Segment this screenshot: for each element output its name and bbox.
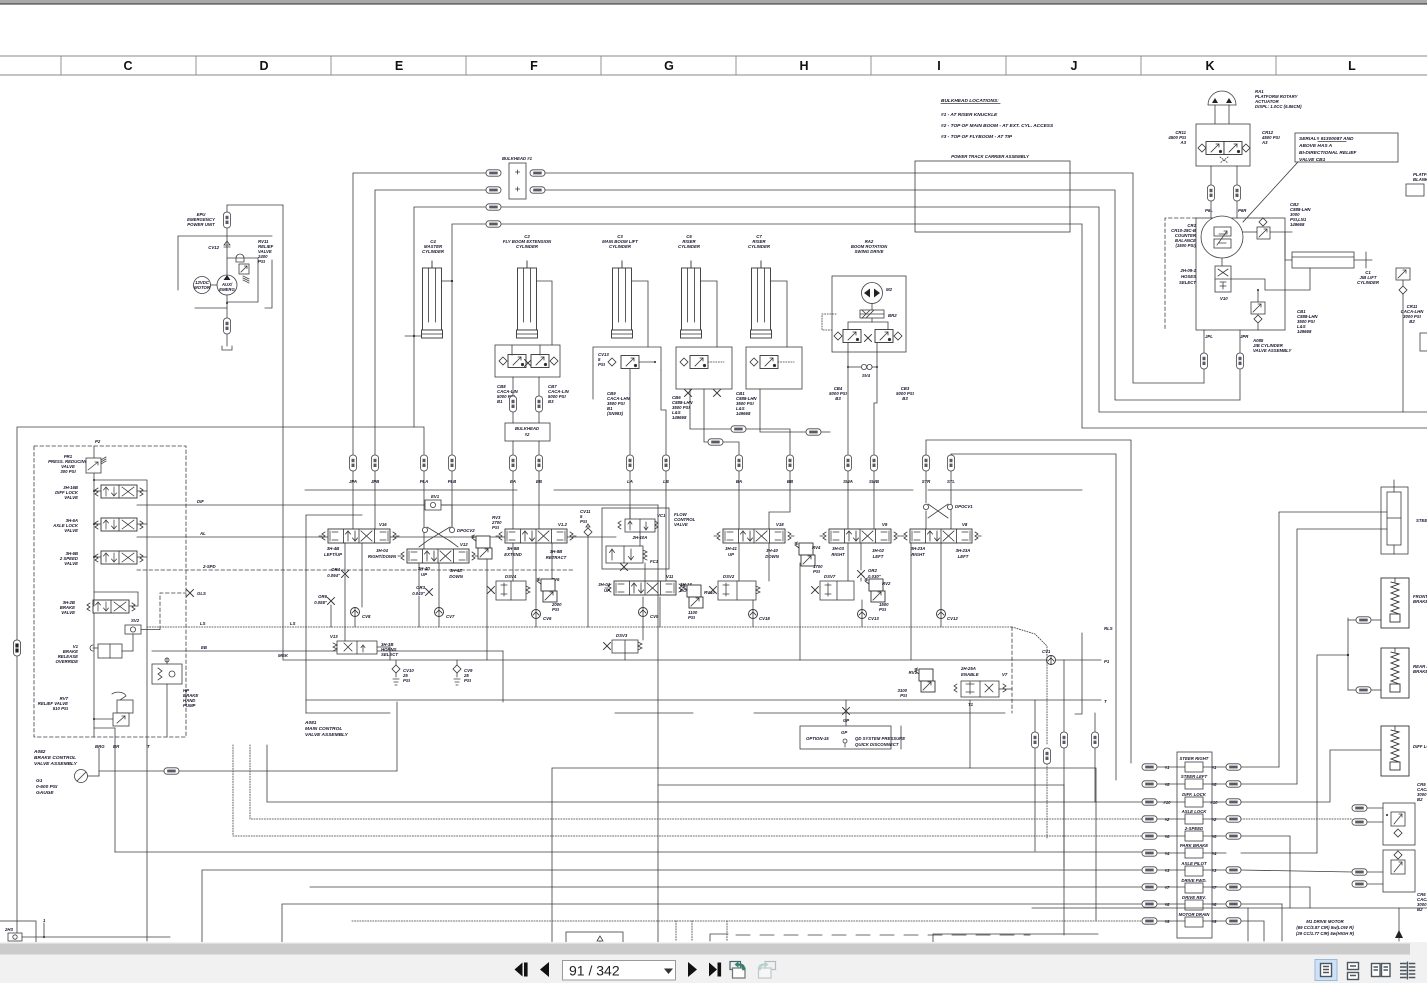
svg-text:B2: B2	[1409, 319, 1415, 324]
svg-text:PSI: PSI	[552, 607, 560, 612]
wires C6 down with SAE4 pills	[690, 389, 731, 429]
svg-text:K: K	[1205, 59, 1214, 73]
bottom right return box	[933, 934, 1098, 943]
valve V16 platform level	[319, 529, 399, 543]
svg-text:V12: V12	[460, 542, 468, 547]
svg-text:BRG: BRG	[95, 744, 105, 749]
top browser strip	[0, 0, 1427, 3]
svg-text:BR: BR	[113, 744, 120, 749]
svg-text:PSI: PSI	[900, 693, 908, 698]
grid header row	[0, 56, 1427, 75]
wire bus 7	[310, 886, 1142, 888]
svg-text:3H-04: 3H-04	[376, 548, 388, 553]
svg-text:3H-4D: 3H-4D	[418, 566, 430, 571]
first page button	[515, 963, 523, 977]
wires C2 down	[512, 377, 514, 396]
svg-text:P6R: P6R	[1238, 208, 1247, 213]
diff lock actuator	[1381, 726, 1409, 776]
CR box 2	[1383, 850, 1415, 892]
svg-text:ENABLE: ENABLE	[961, 672, 979, 677]
counterbalance pair swing	[834, 332, 842, 340]
svg-text:MGK: MGK	[278, 653, 289, 658]
svg-text:#7: #7	[1165, 885, 1170, 890]
svg-text:DOWN: DOWN	[449, 574, 464, 579]
svg-text:QD SYSTEM PRESSURE: QD SYSTEM PRESSURE	[855, 736, 905, 741]
svg-text:MOTOR DRAIN: MOTOR DRAIN	[1179, 912, 1211, 917]
rear axle brake	[1381, 648, 1409, 698]
svg-text:SELECT: SELECT	[1179, 280, 1196, 285]
bottom small box G	[566, 932, 623, 956]
next page button	[688, 962, 697, 977]
svg-text:POWER TRACK CARRIER ASSEMBLY: POWER TRACK CARRIER ASSEMBLY	[951, 154, 1030, 159]
svg-text:3H-04: 3H-04	[598, 582, 610, 587]
svg-text:H: H	[799, 59, 808, 73]
pills row	[350, 455, 357, 471]
svg-text:VALVE ASSEMBLY: VALVE ASSEMBLY	[34, 761, 78, 767]
relief CB1 jib	[1251, 302, 1265, 314]
connector SAE4 pill C7	[806, 429, 821, 435]
svg-text:PSI: PSI	[580, 519, 588, 524]
wire LS long dotted	[147, 626, 1012, 628]
svg-text:PSI: PSI	[492, 525, 500, 530]
svg-text:#2: #2	[1165, 817, 1170, 822]
rail T	[306, 699, 1101, 701]
svg-text:#1 - AT RISER KNUCKLE: #1 - AT RISER KNUCKLE	[941, 112, 998, 118]
svg-text:T1: T1	[968, 702, 974, 707]
wire PLA run	[414, 207, 1427, 455]
svg-text:149668: 149668	[1297, 329, 1312, 334]
wires steer	[1279, 512, 1387, 767]
svg-text:M1 DRIVE MOTOR: M1 DRIVE MOTOR	[1306, 919, 1344, 924]
svg-text:D: D	[259, 59, 268, 73]
svg-text:LEFT/UP: LEFT/UP	[324, 552, 342, 557]
wire gauge to manifold	[179, 770, 397, 772]
wire bus 9 dotted	[352, 920, 1142, 922]
svg-text:PSI: PSI	[688, 615, 696, 620]
node GLS	[187, 590, 194, 597]
wires jib cylinder	[1285, 232, 1292, 260]
svg-text:#4: #4	[1212, 851, 1217, 856]
svg-text:P6L: P6L	[1205, 208, 1213, 213]
svg-text:CV13: CV13	[868, 616, 879, 621]
shaft wire	[211, 284, 218, 286]
svg-text:3H-41: 3H-41	[725, 546, 737, 551]
svg-text:2-SPEED: 2-SPEED	[1184, 826, 1203, 831]
wires dome to box	[1214, 105, 1216, 124]
svg-text:V13: V13	[330, 634, 338, 639]
wire AL	[137, 536, 616, 538]
svg-text:DIFF LOCK: DIFF LOCK	[1413, 744, 1427, 749]
svg-text:CYLINDER: CYLINDER	[1357, 280, 1380, 285]
svg-text:L: L	[1348, 59, 1356, 73]
valve V18 riser	[714, 529, 794, 543]
svg-text:PARK BRAKE: PARK BRAKE	[1180, 843, 1208, 848]
wire JPA run	[353, 173, 486, 455]
svg-text:C: C	[123, 59, 132, 73]
svg-text:3H-4B: 3H-4B	[327, 546, 339, 551]
check CV6	[532, 610, 541, 619]
svg-text:3H-23A: 3H-23A	[956, 548, 971, 553]
check CV9	[453, 665, 461, 673]
svg-text:V18: V18	[776, 522, 784, 527]
svg-text:STR: STR	[922, 479, 931, 484]
valve assembly C3	[593, 347, 661, 399]
relief valve RV11	[236, 254, 244, 262]
svg-text:JPL: JPL	[1205, 334, 1213, 339]
connector SAE6 pill gauge line	[164, 768, 179, 774]
check CV13	[858, 610, 867, 619]
svg-text:#8: #8	[1212, 902, 1217, 907]
bottom toolbar	[0, 942, 1427, 983]
svg-text:#6: #6	[1212, 834, 1217, 839]
page number box	[563, 961, 676, 981]
svg-text:2H-09-1: 2H-09-1	[1179, 268, 1196, 273]
svg-text:RIGHT: RIGHT	[831, 552, 845, 557]
svg-text:RIGHT/DOWN: RIGHT/DOWN	[368, 554, 397, 559]
svg-text:SWING DRIVE: SWING DRIVE	[855, 249, 884, 254]
EPU bottom rails	[195, 307, 227, 309]
last page button	[709, 963, 717, 977]
svg-text:STEER LEFT: STEER LEFT	[1181, 774, 1208, 779]
svg-text:CV12: CV12	[947, 616, 958, 621]
svg-text:V9: V9	[882, 522, 888, 527]
wire pump down	[226, 295, 228, 318]
node GP	[843, 708, 850, 715]
svg-text:#5: #5	[1165, 782, 1170, 787]
svg-text:G: G	[664, 59, 674, 73]
svg-text:DOWN: DOWN	[765, 554, 780, 559]
valve FC1	[606, 546, 643, 563]
check CV10	[392, 665, 400, 673]
svg-text:#9: #9	[1165, 919, 1170, 924]
svg-text:#9: #9	[1212, 919, 1217, 924]
svg-text:GAUGE: GAUGE	[36, 790, 54, 796]
manifold top bus	[305, 489, 517, 491]
continuous icon	[1348, 963, 1359, 970]
svg-text:VALVE: VALVE	[61, 610, 75, 615]
svg-text:UP: UP	[728, 552, 734, 557]
svg-text:I: I	[937, 59, 940, 73]
valve EV1	[425, 500, 441, 510]
connector pills bulkhead1	[486, 170, 501, 176]
svg-text:RV1: RV1	[909, 670, 918, 675]
wire to tank	[226, 334, 228, 346]
tank symbol	[222, 346, 232, 350]
svg-text:510 PSI: 510 PSI	[53, 706, 69, 711]
wire EPU right drop	[283, 205, 306, 660]
svg-text:DSV3: DSV3	[616, 633, 628, 638]
svg-text:0.055": 0.055"	[314, 600, 328, 605]
wire bus 2 dotted	[250, 745, 1142, 819]
brake feed wires	[1347, 618, 1349, 690]
right edge check assembly	[1396, 268, 1410, 280]
svg-text:0.030": 0.030"	[868, 574, 882, 579]
bulkhead #2 box	[505, 423, 550, 441]
valve V11 lift	[605, 581, 685, 595]
svg-text:#2: #2	[525, 432, 530, 437]
orifice OR2	[858, 571, 865, 578]
svg-text:3H-4E: 3H-4E	[450, 568, 462, 573]
prev page button	[540, 962, 549, 977]
svg-text:OPTION-15: OPTION-15	[806, 736, 829, 741]
wires C3 down	[629, 369, 631, 455]
note pointer	[1243, 162, 1298, 222]
svg-text:P1: P1	[1104, 659, 1110, 664]
svg-text:2-SPD: 2-SPD	[202, 564, 216, 569]
svg-text:#10: #10	[1163, 800, 1171, 805]
svg-text:VALVE: VALVE	[64, 528, 78, 533]
svg-text:0.094": 0.094"	[327, 573, 341, 578]
svg-text:#8: #8	[1165, 902, 1170, 907]
svg-text:#10: #10	[1210, 800, 1218, 805]
bulkhead #1 box	[509, 163, 526, 199]
svg-text:CV6: CV6	[543, 616, 552, 621]
wire return box 2	[658, 785, 1064, 943]
svg-text:VALVE CB1: VALVE CB1	[1299, 157, 1326, 163]
check valve CV12	[224, 241, 230, 247]
svg-text:AL: AL	[199, 531, 206, 536]
svg-text:OR2: OR2	[868, 568, 877, 573]
svg-text:A081: A081	[304, 720, 317, 726]
svg-text:3H-40: 3H-40	[766, 548, 778, 553]
cylinder C1 jib lift	[1292, 252, 1354, 268]
brake BR2	[860, 310, 884, 318]
connector SAE pill EPU bottom	[224, 318, 231, 334]
wire pump column	[226, 205, 228, 212]
svg-text:G1: G1	[36, 778, 43, 784]
swing enclosure	[832, 276, 906, 352]
svg-text:BRAKE CONTROL: BRAKE CONTROL	[34, 755, 76, 761]
svg-text:BULKHEAD: BULKHEAD	[515, 426, 539, 431]
check CV12	[937, 610, 946, 619]
check CV5	[639, 608, 648, 617]
valve V12 jib	[398, 549, 478, 563]
svg-text:V16: V16	[379, 522, 387, 527]
enable bracket	[1075, 633, 1082, 714]
svg-text:DRIVE FWD.: DRIVE FWD.	[1181, 878, 1206, 883]
valve V9 swing	[820, 529, 900, 543]
svg-text:91 / 342: 91 / 342	[569, 963, 620, 979]
svg-text:#6: #6	[1165, 834, 1170, 839]
check CV8	[351, 608, 360, 617]
next view button (disabled)	[765, 962, 776, 970]
svg-text:2H-25A: 2H-25A	[960, 666, 976, 671]
svg-text:STEER RIGHT: STEER RIGHT	[1180, 756, 1209, 761]
relief RV10	[683, 584, 703, 608]
svg-text:B3: B3	[548, 399, 554, 404]
svg-text:LEFT: LEFT	[873, 554, 884, 559]
relief return box	[227, 258, 258, 302]
two-up continuous icon	[1400, 962, 1415, 980]
counterbalance CR11	[1198, 144, 1206, 152]
svg-text:PSI: PSI	[403, 678, 411, 683]
svg-text:AXLE LOCK: AXLE LOCK	[1181, 809, 1208, 814]
svg-text:FC1: FC1	[650, 559, 659, 564]
wires RLS P1 T drops	[1012, 627, 1047, 745]
svg-text:CV8: CV8	[362, 614, 371, 619]
wire 2-SPD	[137, 569, 574, 571]
svg-text:#4: #4	[1165, 851, 1170, 856]
manifold left edge	[306, 515, 362, 713]
manifold right dashed edge	[1011, 627, 1013, 713]
left pills column	[1142, 764, 1157, 770]
counterbalance CR1 circle	[1201, 216, 1243, 258]
check DPOCV2	[422, 527, 427, 532]
svg-text:VALVE: VALVE	[64, 495, 78, 500]
valve assembly C6	[676, 347, 732, 389]
svg-text:E: E	[395, 59, 403, 73]
svg-text:2H3: 2H3	[4, 927, 13, 932]
serial number note box	[1295, 133, 1398, 162]
svg-text:CYLINDER: CYLINDER	[516, 244, 539, 249]
svg-text:PSI: PSI	[258, 259, 266, 264]
svg-text:V10: V10	[1220, 296, 1228, 301]
svg-text:QUICK DISCONNECT: QUICK DISCONNECT	[855, 742, 899, 747]
svg-text:EMERG: EMERG	[219, 287, 235, 292]
wire EPU top	[227, 204, 283, 206]
svg-text:#2: #2	[1212, 817, 1217, 822]
connector SAE pill EPU top	[224, 212, 231, 228]
svg-text:DIFF. LOCK: DIFF. LOCK	[1182, 792, 1207, 797]
wire DIF	[137, 504, 658, 506]
svg-text:V1.2: V1.2	[558, 522, 567, 527]
svg-text:RETRACT: RETRACT	[546, 555, 567, 560]
svg-text:149668: 149668	[672, 415, 687, 420]
svg-text:(69 CC/3.87 CIR) 5w(LOW R): (69 CC/3.87 CIR) 5w(LOW R)	[1296, 925, 1354, 930]
svg-text:VALVE ASSEMBLY: VALVE ASSEMBLY	[1253, 348, 1292, 353]
wire bus 4	[115, 851, 1142, 853]
svg-text:3H-23A: 3H-23A	[911, 546, 926, 551]
svg-text:GP: GP	[841, 730, 847, 735]
svg-text:0-600 PSI: 0-600 PSI	[36, 784, 58, 790]
wire bus 6 dotted	[233, 745, 1142, 836]
svg-text:MOTOR: MOTOR	[194, 285, 211, 290]
svg-text:VALVE: VALVE	[674, 522, 688, 527]
steer cylinder	[1381, 487, 1408, 554]
svg-text:3H-03: 3H-03	[832, 546, 844, 551]
svg-text:UP: UP	[604, 588, 610, 593]
valve assembly C2 counterbalance	[495, 345, 560, 377]
svg-text:(29 CC/1.77 CIR) 5w(HIGH R): (29 CC/1.77 CIR) 5w(HIGH R)	[1296, 931, 1355, 936]
relief RV4	[795, 542, 815, 566]
valve VC1	[625, 519, 655, 532]
svg-text:F: F	[530, 59, 538, 73]
actuator RA1 dome	[1208, 91, 1236, 105]
svg-text:OR4: OR4	[331, 567, 340, 572]
svg-text:V7: V7	[1002, 672, 1008, 677]
svg-text:M2: M2	[886, 287, 893, 292]
svg-text:DPOCV2: DPOCV2	[457, 528, 475, 533]
manifold bottom border	[615, 712, 693, 714]
wires box down	[1210, 166, 1212, 185]
valve assembly C7	[746, 347, 802, 389]
valve V1.2 extend	[496, 529, 576, 543]
pump AUX/EMERG	[217, 275, 237, 295]
svg-text:DIF: DIF	[197, 499, 204, 504]
svg-text:MAIN CONTROL: MAIN CONTROL	[305, 726, 342, 732]
two-up icon	[1372, 964, 1381, 977]
svg-text:CV18: CV18	[759, 616, 770, 621]
relief RV2	[865, 578, 885, 602]
svg-text:#7: #7	[1212, 885, 1217, 890]
svg-text:(1500 PSI): (1500 PSI)	[1175, 243, 1196, 248]
pill stubs to bus	[352, 471, 354, 529]
wire dash bottom	[736, 934, 1030, 936]
pills SAE4 jib top	[1208, 185, 1215, 201]
wire main column	[93, 446, 95, 737]
svg-text:BULKHEAD #1: BULKHEAD #1	[502, 156, 533, 161]
svg-text:GLS: GLS	[197, 591, 206, 596]
motor M2	[862, 283, 883, 304]
svg-text:CYLINDER: CYLINDER	[609, 244, 632, 249]
svg-text:149668: 149668	[1290, 222, 1305, 227]
svg-text:#3: #3	[1165, 868, 1170, 873]
svg-text:STEER: STEER	[1416, 518, 1427, 523]
svg-text:CV1: CV1	[1042, 649, 1051, 654]
svg-text:PSI: PSI	[879, 607, 887, 612]
svg-text:DRIVE REV.: DRIVE REV.	[1182, 895, 1206, 900]
pills C2 upper	[510, 396, 517, 412]
wire T drop	[146, 745, 148, 941]
wires swing down	[847, 343, 849, 455]
svg-text:300 PSI: 300 PSI	[60, 469, 76, 474]
previous view button	[730, 962, 741, 970]
svg-text:LS: LS	[200, 621, 206, 626]
connector SAE6 pill left edge	[14, 640, 21, 656]
check DPOCV1	[923, 504, 928, 509]
svg-text:HOSES: HOSES	[1181, 274, 1196, 279]
svg-text:PSI: PSI	[813, 569, 821, 574]
svg-text:UP: UP	[421, 572, 427, 577]
wire bus 10	[267, 745, 1142, 802]
svg-text:B2: B2	[1417, 797, 1423, 802]
svg-text:V11: V11	[666, 574, 674, 579]
svg-text:#2 - TOP OF MAIN BOOM - AT EXT: #2 - TOP OF MAIN BOOM - AT EXT. CYL. ACC…	[941, 123, 1054, 129]
shuttle SV4	[861, 364, 866, 369]
svg-text:CV7: CV7	[446, 614, 455, 619]
svg-text:OVERRIDE: OVERRIDE	[56, 659, 79, 664]
svg-text:SV2: SV2	[131, 618, 140, 623]
steer feed wires	[926, 440, 1131, 763]
svg-text:149668: 149668	[736, 411, 751, 416]
svg-text:BRAKE: BRAKE	[1413, 669, 1427, 674]
svg-text:LS: LS	[290, 621, 296, 626]
counterbalance CR12	[1224, 142, 1242, 155]
svg-text:3H-02: 3H-02	[872, 548, 884, 553]
svg-text:#5: #5	[1212, 782, 1217, 787]
wire bottom pins	[94, 727, 115, 729]
wire bus 3	[202, 870, 1142, 943]
svg-text:B2: B2	[1417, 907, 1423, 912]
svg-text:P2: P2	[95, 439, 101, 444]
single page icon	[1321, 964, 1332, 977]
connector pills top wires	[486, 204, 501, 210]
check CV7	[435, 608, 444, 617]
svg-text:CV12: CV12	[208, 245, 219, 250]
flow control valve assembly	[602, 508, 669, 569]
svg-text:DPOCV1: DPOCV1	[955, 504, 973, 509]
svg-text:ABOVE HAS A: ABOVE HAS A	[1298, 143, 1333, 149]
valve V8 steer	[901, 529, 981, 543]
destination wires right of column	[1241, 766, 1279, 768]
wire left trunk	[17, 427, 414, 941]
svg-text:JPR: JPR	[1240, 334, 1249, 339]
wire return box 1	[552, 768, 1096, 943]
svg-text:RV4: RV4	[812, 545, 821, 550]
svg-text:PUMP: PUMP	[183, 703, 196, 708]
svg-text:J: J	[1071, 59, 1078, 73]
svg-text:B1: B1	[497, 399, 503, 404]
